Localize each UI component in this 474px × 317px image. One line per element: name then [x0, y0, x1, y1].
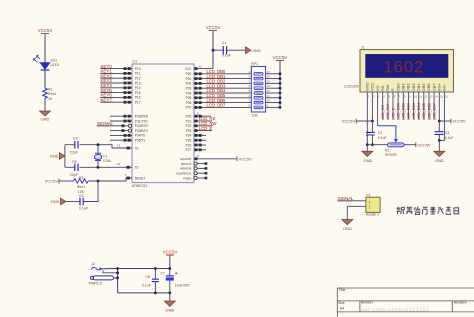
net label KEY2 and wire to P12	[100, 73, 132, 79]
svg-text:GND: GND	[252, 48, 261, 53]
svg-text:X1: X1	[135, 146, 139, 150]
svg-text:Number: Number	[361, 301, 374, 305]
capacitor C1 0.1uF	[222, 41, 232, 58]
svg-text:13: 13	[267, 84, 271, 88]
wire gnd rail to pot R2	[367, 144, 387, 146]
svg-text:PSEN: PSEN	[183, 176, 191, 180]
svg-text:RP1: RP1	[251, 62, 258, 66]
wire VCC pin to rail	[194, 64, 213, 70]
svg-text:P02: P02	[186, 82, 192, 86]
svg-text:Y1: Y1	[103, 154, 107, 158]
net label KEY0 and wire to P10	[100, 64, 132, 70]
svg-text:P07: P07	[186, 106, 192, 110]
power port VCC5V (EA)	[237, 156, 252, 161]
wire VCC5V to R3	[59, 180, 74, 182]
svg-text:VCC5V: VCC5V	[452, 119, 466, 124]
svg-text:11: 11	[267, 94, 270, 98]
resistor R1 Res1 1K	[43, 88, 57, 101]
svg-text:SIGNAL: SIGNAL	[338, 196, 355, 201]
power port GND (reset)	[51, 198, 66, 205]
junction nodes power rails	[154, 267, 171, 294]
svg-text:J2: J2	[91, 262, 95, 266]
capacitor C5 22pF	[70, 160, 79, 177]
wire bottom rail to ground	[169, 293, 171, 301]
pin names U1 left column	[135, 67, 149, 180]
svg-text:C8: C8	[146, 275, 151, 279]
svg-text:VCC: VCC	[185, 67, 192, 71]
wire J2 to top rail	[110, 268, 169, 270]
svg-text:P13: P13	[135, 81, 141, 85]
power port VCC5V (LCD left)	[342, 118, 357, 123]
svg-text:ALE/PROG: ALE/PROG	[176, 172, 192, 176]
svg-text:10uF/25V: 10uF/25V	[175, 284, 190, 288]
net label KEY5 and wire to P15	[100, 88, 132, 94]
RP1 pin numbers left 1-8	[248, 70, 250, 108]
wire left cap rail	[64, 145, 66, 168]
svg-text:P15: P15	[135, 91, 141, 95]
wire ALE stub with bubble	[194, 172, 207, 175]
wire P05 to RP1 with net label LCD_DB5	[194, 93, 251, 99]
svg-text:0.1uF: 0.1uF	[142, 283, 152, 287]
svg-text:RD/P37: RD/P37	[181, 162, 192, 166]
wire RD stub with bubble	[194, 162, 207, 165]
wire C4 branch to X1	[65, 143, 132, 149]
wire P06 to RP1 with net label LCD_DB6	[194, 98, 251, 104]
svg-text:A4: A4	[340, 307, 344, 311]
svg-text:VCC5V: VCC5V	[163, 249, 178, 254]
svg-text:P10: P10	[135, 67, 141, 71]
svg-text:16: 16	[267, 70, 271, 74]
svg-text:KEY7: KEY7	[101, 97, 113, 102]
resistor R3 Res1 10K	[74, 176, 89, 194]
wire EA/VPP to VCC5V port	[194, 154, 237, 160]
svg-text:0.1uF: 0.1uF	[445, 136, 454, 140]
resistor elements inside RP1	[254, 73, 263, 109]
power port VCC5V (reset)	[45, 179, 59, 184]
wire R1 to ground	[44, 98, 46, 111]
svg-text:P1: P1	[367, 193, 371, 197]
svg-text:C4: C4	[73, 137, 78, 141]
svg-text:EA/VPP: EA/VPP	[180, 157, 191, 161]
wires RP1 right pins to VCC rail	[266, 74, 280, 108]
svg-text:GND: GND	[364, 158, 373, 163]
svg-text:P27: P27	[186, 148, 192, 152]
wire VCC5V port to pin2 rail	[356, 120, 372, 122]
svg-text:P17: P17	[135, 101, 141, 105]
svg-text:R3: R3	[79, 176, 84, 180]
svg-text:VCC5V: VCC5V	[273, 55, 288, 60]
svg-text:Size: Size	[338, 301, 345, 305]
LED D01 LED1	[34, 55, 60, 70]
junction node C5/Y1	[97, 166, 100, 169]
svg-text:VCC5V: VCC5V	[239, 156, 253, 161]
capacitor C3 0.1uF	[435, 131, 454, 140]
svg-text:1K: 1K	[48, 97, 53, 101]
svg-text:Res1: Res1	[77, 185, 85, 189]
svg-text:WR/P36: WR/P36	[180, 167, 192, 171]
crystal Y1 XTAL	[94, 145, 111, 168]
svg-text:J1: J1	[361, 46, 365, 50]
svg-text:SIGNAL: SIGNAL	[97, 121, 114, 126]
capacitor C8 0.1uF	[142, 269, 159, 293]
svg-text:Revision: Revision	[454, 301, 467, 305]
junction nodes on RP1 rail	[279, 72, 282, 108]
wire J2 ground vertical	[117, 269, 119, 293]
wire pot to VCC5V port	[404, 144, 416, 146]
wire PSEN stub with bubble	[194, 176, 207, 179]
svg-text:18: 18	[117, 162, 121, 166]
connector J1 LCD1602 body	[344, 46, 454, 92]
net label KEY6 and wire to P16	[100, 93, 132, 99]
svg-text:BG-: BG-	[442, 83, 447, 91]
wire P24 stub	[194, 134, 206, 137]
wire C1 to GND port	[227, 49, 246, 51]
wire P26 stub	[194, 144, 206, 147]
svg-text:P35/T1: P35/T1	[135, 139, 146, 143]
wire VO pin3 to pot wiper	[377, 92, 379, 126]
svg-text:P26: P26	[186, 143, 192, 147]
svg-text:RESVR: RESVR	[385, 153, 397, 157]
capacitor C6 0.1uF	[79, 194, 89, 210]
junction nodes on gnd rail	[366, 143, 369, 146]
wire P1 pin2 to ground	[347, 206, 366, 219]
svg-text:P23: P23	[186, 129, 192, 133]
power VCC5V (RP1 rail)	[273, 55, 288, 62]
wire P35 stub	[110, 139, 132, 142]
connector J2 PWR2.5 jack	[89, 262, 118, 285]
wire P30 stub	[110, 115, 132, 118]
junction nodes at J2	[116, 267, 119, 279]
svg-text:GND: GND	[51, 199, 60, 204]
svg-text:GND: GND	[41, 117, 50, 122]
ground GND (LED branch)	[40, 111, 51, 122]
svg-text:VCC5V: VCC5V	[38, 28, 53, 33]
svg-text:C7: C7	[161, 271, 165, 275]
svg-text:RESET: RESET	[135, 176, 146, 180]
wire RP1 VCC rail vertical	[279, 62, 281, 108]
svg-text:C2: C2	[378, 131, 382, 135]
wire C5 branch to X2	[65, 162, 132, 169]
svg-text:P04: P04	[186, 91, 192, 95]
svg-text:C1: C1	[222, 41, 227, 45]
svg-text:R2: R2	[385, 148, 389, 152]
svg-text:0.1uF: 0.1uF	[378, 136, 387, 140]
power port GND (crystal rail)	[50, 153, 65, 160]
svg-text:P05: P05	[186, 96, 192, 100]
wire VCC to LED	[44, 35, 46, 63]
wire LCD pin2 column down	[371, 92, 373, 145]
svg-text:U1: U1	[133, 60, 138, 64]
svg-text:GND: GND	[435, 158, 444, 163]
wire P01 to RP1 with net label LCD_DB1	[194, 74, 251, 80]
svg-text:Title: Title	[339, 288, 346, 292]
svg-text:P31/TXD: P31/TXD	[135, 119, 149, 123]
net labels (vertical) LCD_RS LCD_RW LCD_E LCD_DB0-7	[380, 102, 436, 120]
junction node pin15/16	[438, 139, 441, 142]
power VCC5V (LED branch)	[38, 28, 53, 35]
svg-text:GND: GND	[166, 308, 175, 313]
svg-text:GND: GND	[50, 154, 59, 159]
net label KEY4 and wire to P14	[100, 83, 132, 89]
svg-text:1602: 1602	[384, 58, 425, 76]
svg-text:P16: P16	[135, 96, 141, 100]
wire P03 to RP1 with net label LCD_DB3	[194, 83, 251, 89]
svg-text:P32/INT0: P32/INT0	[135, 124, 149, 128]
wire P20 stub	[194, 112, 211, 118]
svg-text:Res1: Res1	[48, 92, 56, 96]
wire P33 INT1 stub with bubble	[110, 129, 132, 132]
svg-text:P00: P00	[186, 72, 192, 76]
net label SIGNAL and wire to P32 INT0 bubble	[97, 121, 132, 127]
svg-text:10K: 10K	[252, 113, 259, 117]
junction node pin2/vcc	[371, 120, 374, 123]
net label KEY1 and wire to P11	[100, 69, 132, 75]
svg-text:LCD_E: LCD_E	[199, 126, 213, 131]
power VCC5V (top center)	[206, 25, 221, 32]
svg-text:C3: C3	[445, 131, 449, 135]
svg-text:22pF: 22pF	[70, 150, 79, 154]
junction node C4/Y1	[97, 143, 100, 146]
RP1 pin numbers right 16-9	[267, 70, 271, 108]
wire stubs LCD pins 4-14	[383, 92, 434, 119]
svg-text:P01: P01	[186, 77, 192, 81]
wire LED to R1	[44, 70, 46, 88]
svg-text:LCD_DB7: LCD_DB7	[431, 102, 436, 120]
wire LCD pin16 column down	[439, 92, 444, 140]
svg-text:GND: GND	[343, 226, 352, 231]
svg-text:0.1uF: 0.1uF	[222, 54, 232, 58]
wire junction to C1	[213, 49, 223, 51]
junction node reset	[97, 180, 100, 183]
connector P1 Header 2	[366, 193, 380, 216]
wire P04 to RP1 with net label LCD_DB4	[194, 88, 251, 94]
net label KEY3 and wire to P13	[100, 78, 132, 84]
svg-text:P22: P22	[186, 124, 192, 128]
svg-text:P03: P03	[186, 87, 192, 91]
wire C6 to GND port	[66, 201, 80, 203]
svg-text:C6: C6	[79, 194, 84, 198]
svg-text:P21: P21	[186, 119, 192, 123]
svg-text:PWR2.5: PWR2.5	[89, 281, 102, 285]
svg-text:P11: P11	[135, 72, 141, 76]
svg-text:VCC5V: VCC5V	[206, 25, 221, 30]
svg-text:P20: P20	[186, 115, 192, 119]
wire VCC5V down to VCC pin	[212, 32, 214, 69]
capacitor C2 0.1uF	[366, 131, 387, 140]
svg-text:Header 2: Header 2	[366, 213, 379, 217]
wire P31 stub	[110, 120, 132, 123]
wire P00 to RP1 with net label LCD_DB0	[194, 69, 251, 75]
capacitor C4 22pF	[70, 137, 79, 155]
svg-text:AT89C51: AT89C51	[132, 184, 148, 188]
ground GND (supply)	[164, 301, 175, 313]
svg-text:VCC5V: VCC5V	[45, 179, 59, 184]
svg-text:2: 2	[369, 206, 371, 210]
wire R3 to RESET pin	[88, 173, 132, 181]
svg-text:P30/RXD: P30/RXD	[135, 115, 149, 119]
wire pin15 rail to VCC5V port right	[439, 120, 450, 122]
power port VCC5V (LCD right)	[451, 119, 466, 124]
svg-text:LCD1602: LCD1602	[344, 84, 359, 88]
power VCC5V (supply output)	[163, 249, 178, 257]
LCD pin names (vertical)	[365, 82, 447, 91]
svg-text:19: 19	[117, 143, 121, 147]
svg-text:22pF: 22pF	[70, 173, 79, 177]
power port VCC5V (pot)	[416, 142, 431, 147]
svg-text:15: 15	[267, 75, 271, 79]
svg-text:VCC5V: VCC5V	[417, 142, 431, 147]
wire WR stub with bubble	[194, 167, 207, 170]
svg-text:1: 1	[369, 200, 371, 204]
svg-text:P12: P12	[135, 77, 141, 81]
svg-text:blog.csdn.net/lin5103151: blog.csdn.net/lin5103151	[359, 307, 430, 313]
svg-text:P33/INT1: P33/INT1	[135, 129, 149, 133]
power port GND (top)	[246, 47, 262, 54]
svg-text:0.1uF: 0.1uF	[79, 206, 89, 210]
svg-text:X2: X2	[135, 166, 139, 170]
svg-text:LCD_DB7: LCD_DB7	[207, 103, 226, 108]
resistor pack RP1 10K body	[251, 62, 266, 117]
svg-text:XTAL: XTAL	[103, 159, 112, 163]
potentiometer R2 RESVR	[385, 143, 404, 157]
wire bottom rail	[118, 292, 170, 294]
svg-text:31: 31	[197, 154, 201, 158]
wire P25 stub	[194, 139, 206, 142]
svg-text:C5: C5	[72, 160, 77, 164]
wire LCD pin15 column down	[438, 92, 440, 140]
net label KEY7 and wire to P17	[100, 97, 132, 103]
svg-text:LED1: LED1	[51, 63, 60, 67]
ground GND (header)	[342, 220, 353, 231]
svg-text:12: 12	[267, 89, 271, 93]
svg-text:P14: P14	[135, 86, 141, 90]
net label SIGNAL and wire to P1 pin1	[337, 196, 366, 201]
capacitor C7 electrolytic 10uF/25V	[161, 269, 191, 293]
svg-text:10: 10	[267, 99, 271, 103]
wire P02 to RP1 with net label LCD_DB2	[194, 79, 251, 85]
wire P07 to RP1 with net label LCD_DB7	[194, 103, 251, 109]
svg-text:VCC5V: VCC5V	[342, 118, 356, 123]
wire VCC5V down to rail	[169, 257, 171, 269]
wire LCD pin1 column down	[366, 92, 368, 145]
svg-text:P34/T0: P34/T0	[135, 134, 146, 138]
svg-text:40: 40	[199, 64, 203, 68]
junction node	[212, 49, 215, 52]
wire reset node down to C6	[83, 181, 98, 202]
caption (chinese) frequency signal input port	[397, 207, 459, 215]
LCD screen 1602	[366, 54, 448, 77]
wire P22 with net label LCD_RW	[194, 121, 217, 127]
pot wiper arrow	[394, 139, 398, 143]
svg-text:P24: P24	[186, 134, 192, 138]
junction node pin15/vcc	[438, 120, 441, 123]
wire P23 with net label LCD_E	[194, 126, 212, 132]
op-chip U1 AT89C51 body	[132, 60, 195, 188]
wire P21 with net label LCD_RS	[194, 116, 215, 122]
svg-text:P25: P25	[186, 139, 192, 143]
ground GND (LCD right)	[434, 140, 445, 162]
wire P27 stub	[194, 148, 206, 151]
svg-text:P06: P06	[186, 101, 192, 105]
pin names U1 right column	[176, 67, 192, 180]
svg-text:14: 14	[267, 79, 271, 83]
LCD pin numbers 1-16	[368, 95, 449, 99]
svg-text:21: 21	[197, 112, 201, 116]
wire P34 stub	[110, 134, 132, 137]
ground GND (LCD left)	[362, 145, 373, 163]
